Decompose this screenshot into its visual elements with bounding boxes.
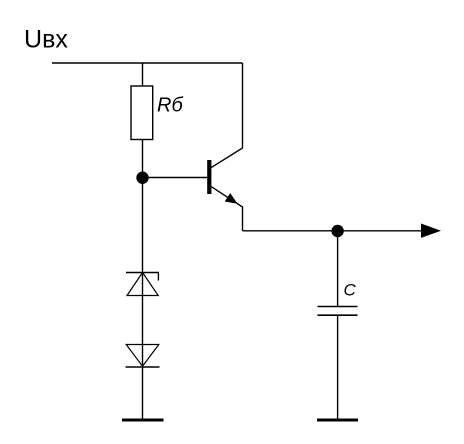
zener diode VD1 cathode bar with hook [126,273,158,281]
zener diode VD1 triangle [127,273,158,296]
wire: input rail to resistor top [142,63,144,86]
transistor VT1 base bar [207,160,211,194]
wire: output node down to capacitor [337,231,339,307]
capacitor C top plate [318,306,358,308]
diode VD2 cathode bar [126,366,160,368]
svg-text:Uвх: Uвх [24,26,68,54]
wire: resistor bottom to base node [142,140,144,178]
wire: capacitor to ground [337,315,339,419]
ground: left ground bar [122,419,164,422]
svg-text:C: C [344,281,357,300]
wire: base node to transistor base [143,177,208,179]
svg-text:Rб: Rб [157,95,183,117]
wire: base node down to zener [142,178,144,273]
transistor VT1 collector lead [211,63,243,168]
wire: between diodes [142,273,144,368]
output arrow head [421,224,441,238]
ground: right ground bar [317,419,358,422]
wire: diode to ground [142,367,144,419]
diode VD2 triangle [126,345,159,367]
capacitor C bottom plate [318,314,358,316]
node: output junction dot [331,225,343,237]
resistor Rб body [131,86,153,140]
wire: top input rail [52,62,243,64]
transistor VT1 emitter arrow [225,193,238,204]
node: base junction dot [136,172,148,184]
wire: emitter to output [243,230,422,232]
transistor VT1 emitter lead [211,186,243,230]
